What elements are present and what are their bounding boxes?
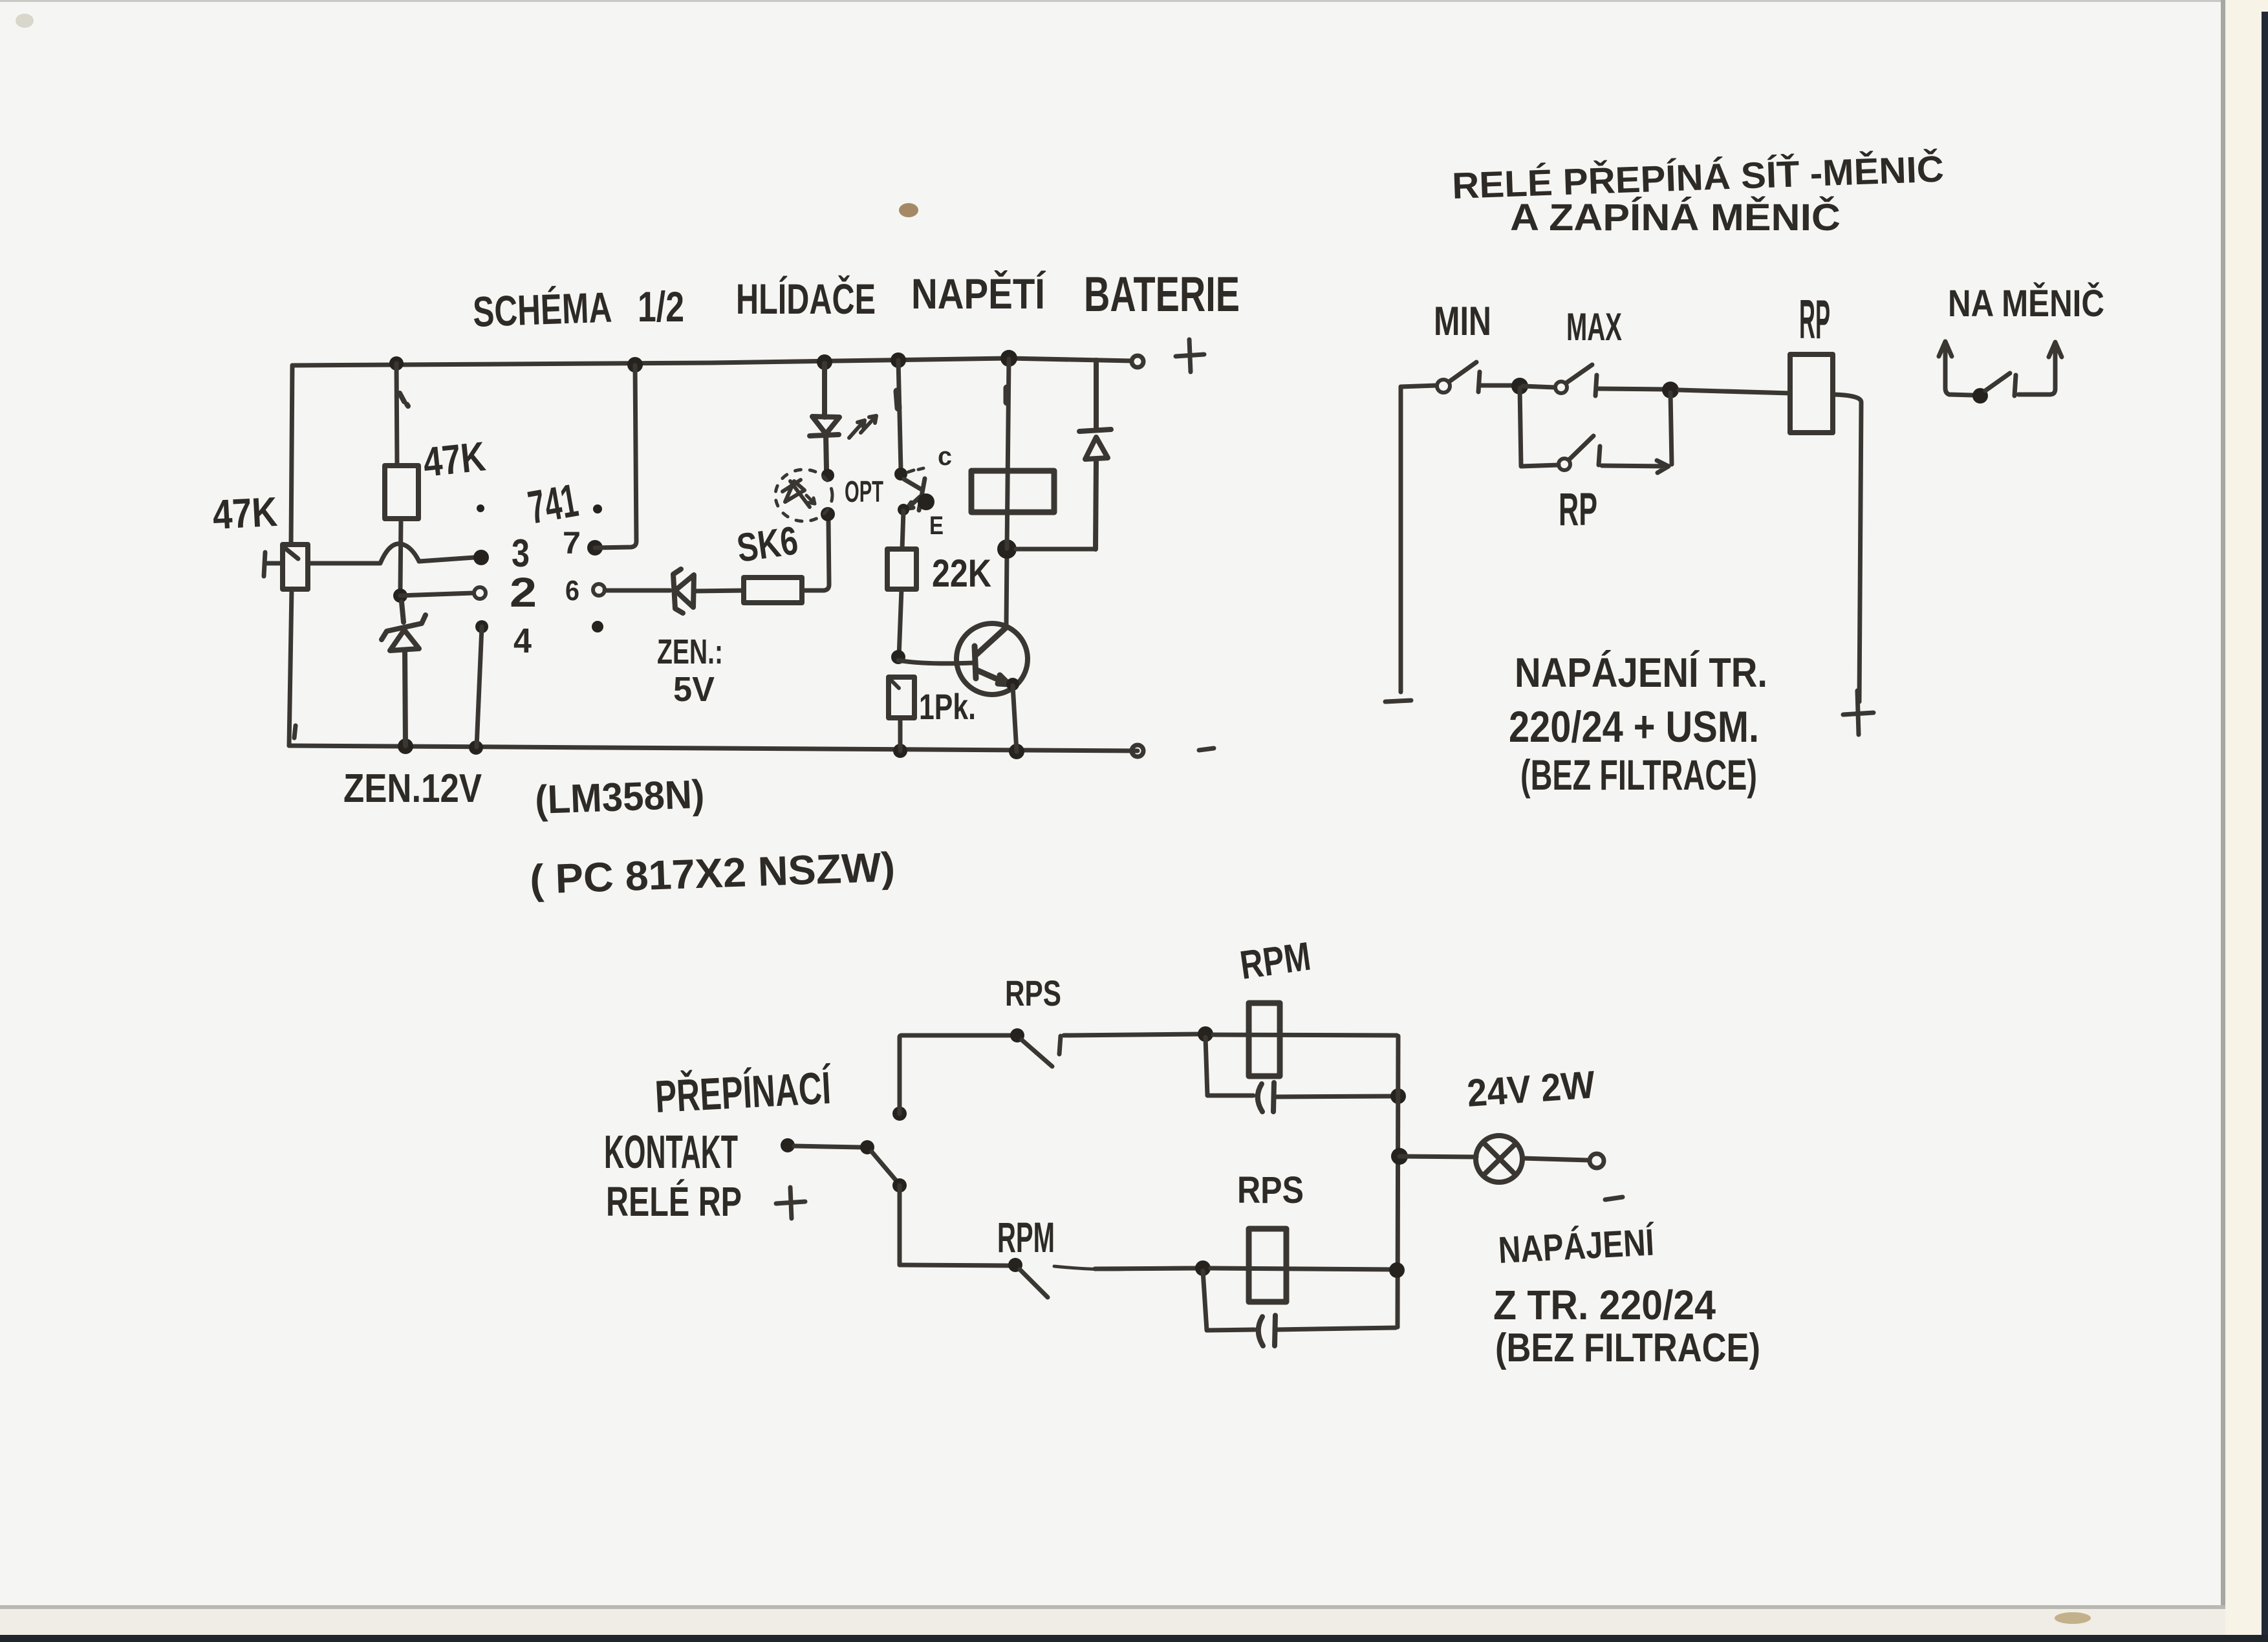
svg-text:(BEZ FILTRACE): (BEZ FILTRACE): [1495, 1326, 1760, 1370]
wire lower contact to lower branch: [900, 1185, 1009, 1266]
svg-text:MAX: MAX: [1566, 305, 1622, 349]
svg-text:1/2: 1/2: [638, 283, 684, 330]
svg-text:47K: 47K: [211, 488, 279, 538]
svg-text:RP: RP: [1799, 289, 1830, 351]
svg-text:741: 741: [524, 475, 582, 534]
svg-text:HLÍDAČE: HLÍDAČE: [736, 275, 876, 323]
wire pin7 to top rail: [595, 365, 636, 548]
wire input to pivot: [794, 1146, 861, 1147]
switch S-RPM lower: [1008, 1258, 1022, 1272]
svg-text:24V 2W: 24V 2W: [1465, 1063, 1597, 1115]
label napajeni TR: [1509, 649, 1767, 799]
switch S-RPS upper: [1010, 1028, 1024, 1042]
wire right bus vertical: [1398, 1036, 1398, 1327]
wire RP contact back to node B with arrowhead: [1602, 393, 1672, 473]
wire pin4 to bottom rail: [477, 627, 482, 747]
svg-text:2: 2: [510, 569, 537, 616]
switch S-RP auxiliary contact: [1559, 459, 1570, 470]
svg-text:(LM358N): (LM358N): [534, 772, 705, 823]
wire NA MENIC right arrow: [2018, 342, 2062, 394]
svg-text:(BEZ FILTRACE): (BEZ FILTRACE): [1520, 751, 1757, 799]
capacitor C2 parallel RPS: [1203, 1271, 1396, 1330]
diode ZD2 zener 5V: [673, 569, 694, 613]
svg-text:PŘEPÍNACÍ: PŘEPÍNACÍ: [654, 1062, 833, 1122]
node upper contact dot: [892, 1107, 907, 1121]
scanner strip right of paper: [2223, 0, 2268, 1642]
relay RPM coil: [1249, 1003, 1280, 1076]
resistor R3 SK6: [744, 578, 802, 603]
switch S-MAX: [1523, 386, 1555, 387]
wire left feed: [1401, 385, 1436, 387]
node minus sign output: [1605, 1197, 1623, 1200]
svg-text:220/24 + USM.: 220/24 + USM.: [1509, 702, 1759, 751]
node bottom-rail junction dots: [398, 739, 1024, 759]
switch S-OUT to inverter: [1972, 388, 1988, 404]
svg-text:22K: 22K: [932, 552, 991, 595]
wire node B to RP coil: [1679, 390, 1790, 393]
wire NA MENIC left arrow: [1939, 341, 1972, 395]
node junction dot to pin2: [393, 589, 407, 603]
node dot at RPM coil left: [1198, 1026, 1213, 1042]
svg-text:6: 6: [565, 575, 579, 607]
wire RPM switch to RPS coil: [1054, 1266, 1196, 1269]
svg-text:ZEN.12V: ZEN.12V: [343, 766, 482, 811]
svg-text:Z TR. 220/24: Z TR. 220/24: [1493, 1282, 1716, 1328]
node junction dot A: [1511, 378, 1528, 394]
wire MIN to MAX: [1480, 383, 1514, 388]
node + battery terminal (open circle): [1132, 356, 1143, 367]
wire top rail: [292, 358, 1132, 365]
svg-text:NAPÁJENÍ: NAPÁJENÍ: [1497, 1221, 1656, 1271]
switch S-RP changeover: [860, 1140, 874, 1154]
optocoupler U2 OPT led: [821, 469, 834, 482]
wire left vertical to minus: [1399, 387, 1403, 692]
svg-text:BATERIE: BATERIE: [1084, 267, 1240, 322]
node output dot: [1391, 1148, 1408, 1165]
node plus sign top: [1176, 340, 1204, 372]
wire 1Pk to bottom rail: [898, 718, 903, 751]
wire 22K to base node: [899, 589, 902, 657]
svg-text:RPS: RPS: [1005, 973, 1061, 1013]
title SCHEMA 1/2 HLIDACE NAPETI BATERIE: [472, 267, 1240, 336]
svg-text:OPT: OPT: [845, 475, 883, 508]
svg-text:1Pk.: 1Pk.: [919, 686, 976, 727]
wire pin6 output: [605, 589, 670, 593]
wire SK6 up to optocoupler: [802, 521, 829, 590]
resistor R2 47K vertical: [396, 363, 401, 589]
transistor Q1 optocoupler phototransistor: [898, 360, 901, 470]
svg-text:E: E: [929, 512, 944, 540]
wire bottom rail: [289, 746, 1138, 751]
svg-text:ZEN.:: ZEN.:: [657, 632, 723, 671]
wire base node to transistor base: [898, 660, 973, 664]
capacitor C1 parallel RPM: [1205, 1037, 1394, 1097]
svg-text:7: 7: [563, 526, 581, 561]
node minus sign bottom: [1199, 748, 1214, 750]
svg-text:5V: 5V: [673, 670, 715, 709]
wire branch down from node A: [1520, 388, 1559, 466]
svg-text:RP: RP: [1559, 484, 1597, 535]
svg-text:MIN: MIN: [1434, 299, 1491, 344]
wire diode bottom to relay node: [1016, 547, 1096, 552]
wire through RPM coil to right bus: [1213, 1035, 1397, 1035]
wire lamp to minus terminal: [1522, 1158, 1589, 1160]
wire RPS switch to RPM coil: [1064, 1034, 1200, 1035]
scanner strip below paper: [0, 1605, 2225, 1609]
svg-text:RPS: RPS: [1237, 1169, 1304, 1211]
svg-text:NAPĚTÍ: NAPĚTÍ: [911, 270, 1046, 318]
wire junction to pin 2: [400, 593, 473, 596]
relay RPS coil: [1249, 1229, 1286, 1302]
wire through RPS coil to right bus: [1211, 1268, 1394, 1269]
wire collector up to relay node: [1006, 551, 1007, 626]
wire zener to SK6: [694, 590, 744, 591]
wire left vertical branch: [289, 365, 296, 746]
node dot right bus lower: [1389, 1262, 1405, 1278]
resistor P1 47K potentiometer: [283, 545, 308, 589]
svg-text:A ZAPÍNÁ MĚNIČ: A ZAPÍNÁ MĚNIČ: [1510, 197, 1841, 239]
svg-text:NAPÁJENÍ TR.: NAPÁJENÍ TR.: [1515, 649, 1767, 696]
node - battery terminal (open circle): [1132, 745, 1143, 757]
wire emitter down to bottom rail: [1013, 686, 1017, 751]
LED D1 indicator: [810, 363, 839, 470]
wire output to lamp: [1399, 1156, 1476, 1157]
node lower contact dot: [892, 1178, 907, 1193]
paper smudge top middle: [899, 203, 918, 217]
svg-text:SCHÉMA: SCHÉMA: [472, 283, 612, 336]
svg-text:4: 4: [513, 621, 532, 660]
node plus sign: [1843, 691, 1874, 735]
relay K1 coil: [1007, 359, 1009, 548]
resistor R5 1Pk: [889, 677, 914, 718]
svg-text:c: c: [938, 442, 952, 471]
svg-text:NA MĚNIČ: NA MĚNIČ: [1948, 283, 2104, 325]
wire RP coil to plus lead: [1833, 394, 1861, 702]
node dot right bus top: [1390, 1088, 1406, 1104]
node plus sign input: [776, 1187, 805, 1218]
op-amp U1 741 pin dots: [473, 504, 603, 633]
svg-text:KONTAKT: KONTAKT: [604, 1127, 738, 1178]
wire upper contact to upper branch: [900, 1035, 1011, 1114]
svg-text:3: 3: [512, 532, 530, 575]
wire wiper to op-amp pin3 with hop over vertical: [308, 544, 474, 563]
node input terminal dot: [781, 1138, 795, 1152]
node output terminal (open circle): [1590, 1154, 1604, 1168]
node top-rail junction dots: [389, 350, 1017, 373]
node junction dot B: [1662, 382, 1679, 398]
svg-text:SK6: SK6: [734, 518, 801, 570]
svg-text:RELÉ RP: RELÉ RP: [606, 1178, 742, 1225]
relay RP coil: [1790, 354, 1833, 433]
node minus sign: [1385, 700, 1411, 702]
node dot at RPS coil left: [1195, 1260, 1211, 1276]
wire emitter down to 22K: [902, 511, 903, 549]
node relay/diode junction dot: [997, 539, 1017, 559]
wire MAX to node B: [1599, 389, 1664, 389]
svg-text:RPM: RPM: [997, 1213, 1055, 1261]
node base junction dot: [891, 650, 905, 664]
resistor R4 22K: [887, 549, 916, 589]
switch S-MIN: [1437, 380, 1450, 393]
diode ZD1 zener 12V: [382, 602, 426, 640]
svg-text:47K: 47K: [421, 433, 488, 486]
paper smudge bottom right: [2055, 1612, 2091, 1624]
diode D2 flyback: [1079, 360, 1111, 549]
transistor Q2 NPN: [956, 623, 1028, 695]
lamp L1 24V 2W: [1476, 1136, 1522, 1182]
